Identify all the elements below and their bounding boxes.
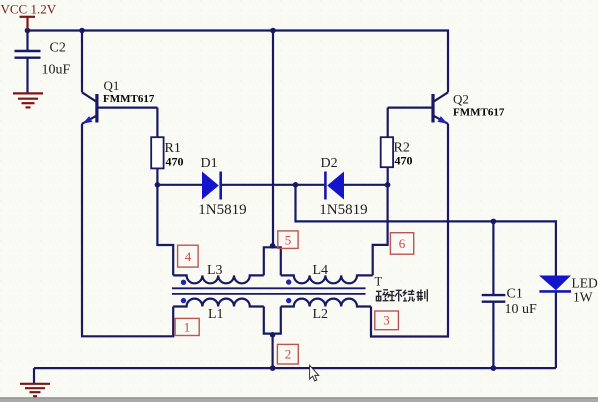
svg-text:3: 3 [383,313,390,328]
svg-text:10uF: 10uF [42,63,71,78]
svg-text:1N5819: 1N5819 [319,202,367,218]
svg-text:L1: L1 [208,307,224,322]
svg-text:470: 470 [395,154,413,168]
svg-text:Q1: Q1 [104,78,120,93]
svg-text:6: 6 [399,236,406,251]
svg-text:10 uF: 10 uF [505,302,538,317]
svg-text:4: 4 [185,249,192,264]
svg-text:1W: 1W [573,290,593,305]
svg-text:C1: C1 [507,287,523,302]
svg-text:L3: L3 [207,263,223,278]
svg-text:D2: D2 [321,156,338,171]
svg-text:1N5819: 1N5819 [198,202,246,218]
svg-text:FMMT617: FMMT617 [453,107,505,119]
svg-text:1: 1 [184,320,191,335]
svg-text:D1: D1 [201,156,218,171]
svg-text:2: 2 [285,347,292,362]
svg-text:LED: LED [572,276,598,291]
svg-text:Q2: Q2 [453,92,469,107]
svg-text:470: 470 [166,155,184,169]
svg-text:L2: L2 [313,307,329,322]
svg-text:L4: L4 [313,263,329,278]
svg-text:T: T [375,275,383,289]
svg-text:C2: C2 [50,41,66,56]
svg-text:5: 5 [285,233,292,248]
svg-text:VCC 1.2V: VCC 1.2V [1,2,57,17]
svg-text:FMMT617: FMMT617 [103,93,155,105]
